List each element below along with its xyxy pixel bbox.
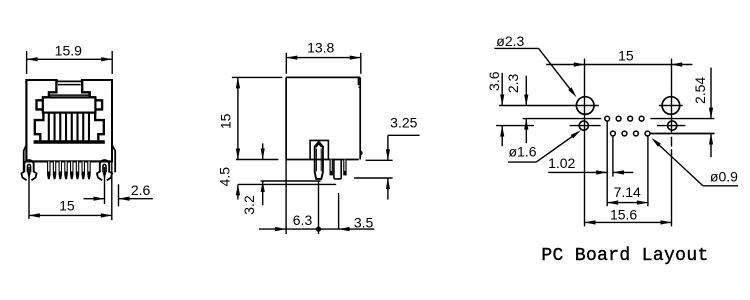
svg-text:3.2: 3.2	[241, 195, 257, 215]
svg-text:15: 15	[618, 48, 634, 64]
svg-text:ø2.3: ø2.3	[496, 33, 524, 49]
svg-text:ø1.6: ø1.6	[508, 143, 536, 159]
svg-text:15: 15	[59, 198, 75, 214]
svg-text:ø0.9: ø0.9	[710, 168, 738, 184]
svg-text:PC Board Layout: PC Board Layout	[541, 246, 708, 266]
svg-text:2.6: 2.6	[131, 182, 151, 198]
svg-text:2.3: 2.3	[505, 73, 521, 93]
svg-text:3.25: 3.25	[390, 114, 417, 130]
svg-text:15.9: 15.9	[55, 42, 82, 58]
svg-text:7.14: 7.14	[614, 184, 641, 200]
svg-text:3.5: 3.5	[354, 215, 374, 231]
svg-text:15: 15	[217, 113, 233, 129]
svg-text:6.3: 6.3	[293, 212, 313, 228]
svg-text:1.02: 1.02	[548, 155, 575, 171]
svg-text:13.8: 13.8	[307, 40, 334, 56]
svg-text:2.54: 2.54	[692, 77, 708, 104]
svg-text:15.6: 15.6	[610, 207, 637, 223]
svg-text:3.6: 3.6	[486, 71, 502, 91]
svg-text:4.5: 4.5	[216, 167, 232, 187]
